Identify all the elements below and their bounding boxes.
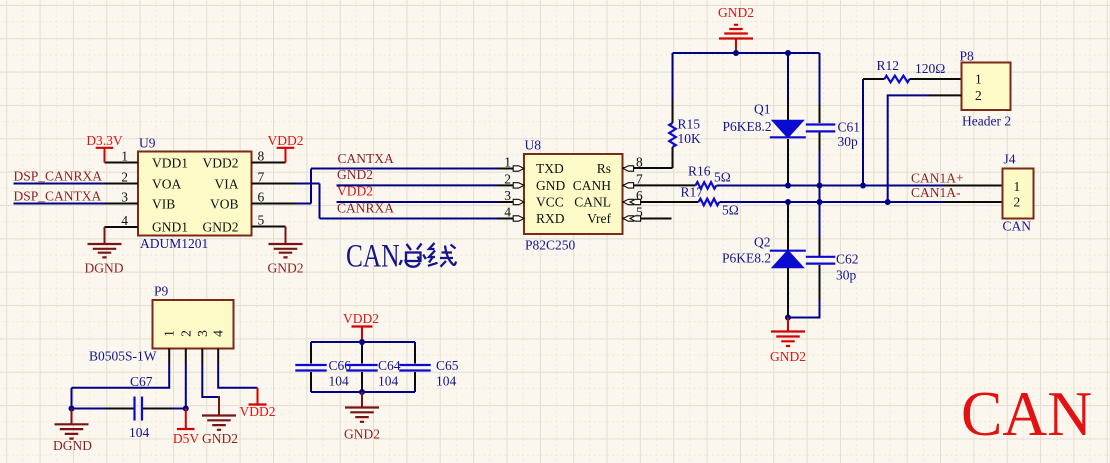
pin 2 U9 / wire DSP_CANRXA [14, 169, 139, 185]
node Q2 CANL [785, 199, 791, 205]
pin 1 U8 [504, 155, 524, 172]
power D5V [173, 409, 199, 447]
power D3.3V [86, 133, 123, 163]
svg-text:5Ω: 5Ω [722, 203, 739, 218]
text CAN logo [961, 379, 1092, 449]
capacitor C62 [788, 237, 859, 318]
svg-text:GND2: GND2 [337, 167, 373, 182]
power VDD2 [268, 133, 304, 163]
pin 6 U8 [623, 188, 699, 205]
svg-text:P9: P9 [154, 284, 169, 299]
svg-text:J4: J4 [1004, 152, 1016, 167]
svg-text:CANL: CANL [574, 195, 611, 210]
wire P8 pin2 to CANL [885, 95, 962, 205]
pin 7 U8 [623, 172, 696, 189]
pin 8 U9 [252, 149, 286, 164]
pin 2 P9 [185, 349, 187, 409]
svg-text:104: 104 [436, 374, 457, 389]
svg-text:104: 104 [129, 425, 150, 440]
svg-text:Header 2: Header 2 [962, 114, 1011, 129]
svg-text:P82C250: P82C250 [525, 238, 576, 253]
svg-text:R12: R12 [877, 58, 900, 73]
svg-text:1: 1 [975, 72, 982, 87]
svg-text:7: 7 [636, 172, 643, 187]
resistor R12 120ohm [863, 58, 962, 82]
svg-text:1: 1 [1014, 179, 1021, 194]
svg-text:DGND: DGND [85, 261, 124, 276]
pin 3 U8 [504, 188, 524, 205]
svg-text:CAN: CAN [961, 379, 1092, 449]
svg-text:2: 2 [121, 170, 128, 185]
svg-text:GND2: GND2 [203, 220, 239, 235]
svg-text:GND2: GND2 [770, 349, 806, 364]
svg-text:VDD2: VDD2 [240, 404, 276, 419]
connector P9 B0505S-1W [89, 284, 234, 364]
svg-text:10K: 10K [678, 131, 702, 146]
svg-text:2: 2 [975, 88, 982, 103]
text CAN bus title [346, 239, 456, 275]
svg-text:2: 2 [1014, 195, 1021, 210]
pin 7 U9 [252, 170, 320, 185]
node Q1 top [785, 50, 791, 56]
svg-text:TXD: TXD [536, 161, 564, 176]
svg-text:VDD1: VDD1 [152, 156, 188, 171]
svg-text:2: 2 [178, 330, 193, 337]
svg-text:CAN: CAN [1003, 219, 1032, 234]
pin 4 P9 [218, 349, 257, 388]
svg-text:VDD2: VDD2 [337, 184, 373, 199]
ground GND2 top [718, 5, 754, 53]
pin 2 U8 [504, 172, 524, 189]
diode Q1 P6KE8.2 [723, 53, 806, 186]
wire caps bottom rail [311, 389, 415, 395]
power VDD2 caps [343, 311, 379, 342]
svg-text:GND2: GND2 [344, 427, 380, 442]
wire GND2 net [337, 167, 525, 185]
svg-text:4: 4 [211, 330, 226, 337]
wire caps top rail [311, 339, 415, 345]
wire vertical pin6 to CANTXA [310, 169, 312, 204]
svg-text:VOA: VOA [152, 177, 181, 192]
svg-text:5Ω: 5Ω [714, 170, 731, 185]
pin 8 U8 [623, 155, 673, 172]
svg-text:GND2: GND2 [202, 431, 238, 446]
resistor R16 5ohm [688, 164, 731, 189]
connector P8 Header 2 [960, 49, 1012, 129]
svg-text:R15: R15 [678, 117, 701, 132]
svg-text:VIA: VIA [215, 177, 239, 192]
wire CANTXA [311, 151, 524, 169]
svg-text:VOB: VOB [210, 197, 239, 212]
pin 1 P9 [72, 349, 170, 388]
ground DGND P9 [53, 409, 92, 454]
capacitor C66 [295, 342, 351, 392]
svg-text:7: 7 [258, 170, 265, 185]
svg-text:4: 4 [121, 213, 128, 228]
svg-text:VDD2: VDD2 [203, 156, 239, 171]
svg-text:8: 8 [636, 155, 643, 170]
resistor R15 [669, 53, 701, 168]
svg-text:104: 104 [378, 374, 399, 389]
pin 4 U9 [105, 213, 139, 228]
power VDD2 P9 [240, 388, 276, 419]
connector J4 CAN [1003, 152, 1034, 234]
svg-text:104: 104 [329, 374, 350, 389]
svg-text:C64: C64 [378, 358, 401, 373]
wire vertical pin7 to CANRXA [319, 184, 321, 219]
svg-text:GND: GND [536, 178, 565, 193]
svg-text:4: 4 [504, 205, 511, 220]
ground GND2 caps [344, 392, 380, 442]
wire C67 rail [69, 388, 189, 412]
svg-text:3: 3 [121, 190, 128, 205]
svg-text:DSP_CANTXA: DSP_CANTXA [14, 189, 102, 204]
svg-text:GND2: GND2 [718, 5, 754, 20]
svg-text:CANTXA: CANTXA [338, 151, 394, 166]
ground DGND [85, 227, 124, 276]
pin 6 U9 [252, 190, 312, 205]
pin 1 U9 [105, 149, 139, 164]
svg-text:GND2: GND2 [268, 261, 304, 276]
wire CANH [717, 171, 1003, 186]
svg-text:DSP_CANRXA: DSP_CANRXA [14, 169, 103, 184]
svg-text:RXD: RXD [536, 211, 565, 226]
svg-text:DGND: DGND [53, 438, 92, 453]
diode Q2 P6KE8.2 [722, 202, 806, 318]
svg-text:C62: C62 [836, 252, 859, 267]
pin 5 U9 [252, 213, 286, 228]
svg-text:U8: U8 [525, 138, 542, 153]
capacitor C64 [346, 342, 400, 392]
svg-text:R17: R17 [681, 185, 704, 200]
svg-text:B0505S-1W: B0505S-1W [89, 349, 157, 364]
resistor R17 5ohm [681, 185, 739, 218]
svg-text:GND1: GND1 [152, 220, 188, 235]
ic U9 ADUM1201 [138, 136, 252, 252]
svg-text:1: 1 [162, 330, 177, 337]
node C61 CANH [817, 183, 823, 189]
capacitor C65 [399, 342, 458, 392]
svg-text:Q2: Q2 [754, 235, 771, 250]
pin 5 U8 [623, 205, 672, 222]
svg-text:Vref: Vref [587, 211, 611, 226]
svg-text:P6KE8.2: P6KE8.2 [722, 251, 771, 266]
svg-text:P6KE8.2: P6KE8.2 [723, 119, 772, 134]
svg-text:P8: P8 [960, 49, 975, 64]
svg-text:CANH: CANH [573, 178, 612, 193]
wire CANRXA [320, 201, 525, 219]
node Q1 CANH [785, 183, 791, 189]
svg-text:CAN1A+: CAN1A+ [911, 171, 964, 186]
svg-text:C65: C65 [436, 358, 459, 373]
ground GND2 bottom [770, 318, 806, 365]
node C62 CANL [817, 199, 823, 205]
wire CANL [720, 185, 1003, 202]
svg-text:30p: 30p [838, 134, 859, 149]
svg-text:3: 3 [504, 188, 511, 203]
svg-text:ADUM1201: ADUM1201 [140, 236, 208, 251]
svg-text:8: 8 [258, 149, 265, 164]
pin 4 U8 [504, 205, 524, 222]
svg-text:VIB: VIB [152, 197, 175, 212]
svg-text:2: 2 [504, 172, 511, 187]
wire VDD2 net [337, 184, 525, 203]
svg-text:120Ω: 120Ω [915, 61, 945, 76]
svg-text:5: 5 [258, 213, 265, 228]
svg-text:6: 6 [258, 190, 265, 205]
svg-text:Rs: Rs [597, 161, 611, 176]
wire R12 branch [860, 79, 866, 189]
ground GND2 under U9 [268, 227, 304, 276]
capacitor C67 [129, 374, 153, 440]
svg-text:U9: U9 [139, 136, 156, 151]
svg-text:1: 1 [504, 155, 511, 170]
svg-text:1: 1 [121, 149, 128, 164]
pin 3 U9 / wire DSP_CANTXA [14, 189, 139, 205]
svg-text:CAN1A-: CAN1A- [911, 185, 961, 200]
svg-text:CANRXA: CANRXA [337, 201, 394, 216]
pin 3 P9 [202, 349, 219, 398]
svg-text:VCC: VCC [536, 195, 564, 210]
svg-text:R16: R16 [688, 164, 711, 179]
svg-text:D3.3V: D3.3V [86, 133, 123, 148]
svg-text:30p: 30p [836, 268, 857, 283]
capacitor C61 [806, 53, 860, 237]
wire top GND2 rail [673, 52, 820, 54]
node Q2 bottom [785, 315, 791, 321]
svg-text:VDD2: VDD2 [268, 133, 304, 148]
svg-text:CAN: CAN [346, 239, 400, 275]
svg-text:C61: C61 [838, 120, 861, 135]
ic U8 P82C250 [524, 138, 623, 253]
svg-text:D5V: D5V [173, 431, 199, 446]
node top GND2 [733, 50, 739, 56]
svg-text:3: 3 [195, 330, 210, 337]
svg-text:C67: C67 [130, 374, 153, 389]
svg-text:Q1: Q1 [754, 102, 771, 117]
svg-text:VDD2: VDD2 [343, 311, 379, 326]
ground GND2 P9 [202, 396, 238, 446]
